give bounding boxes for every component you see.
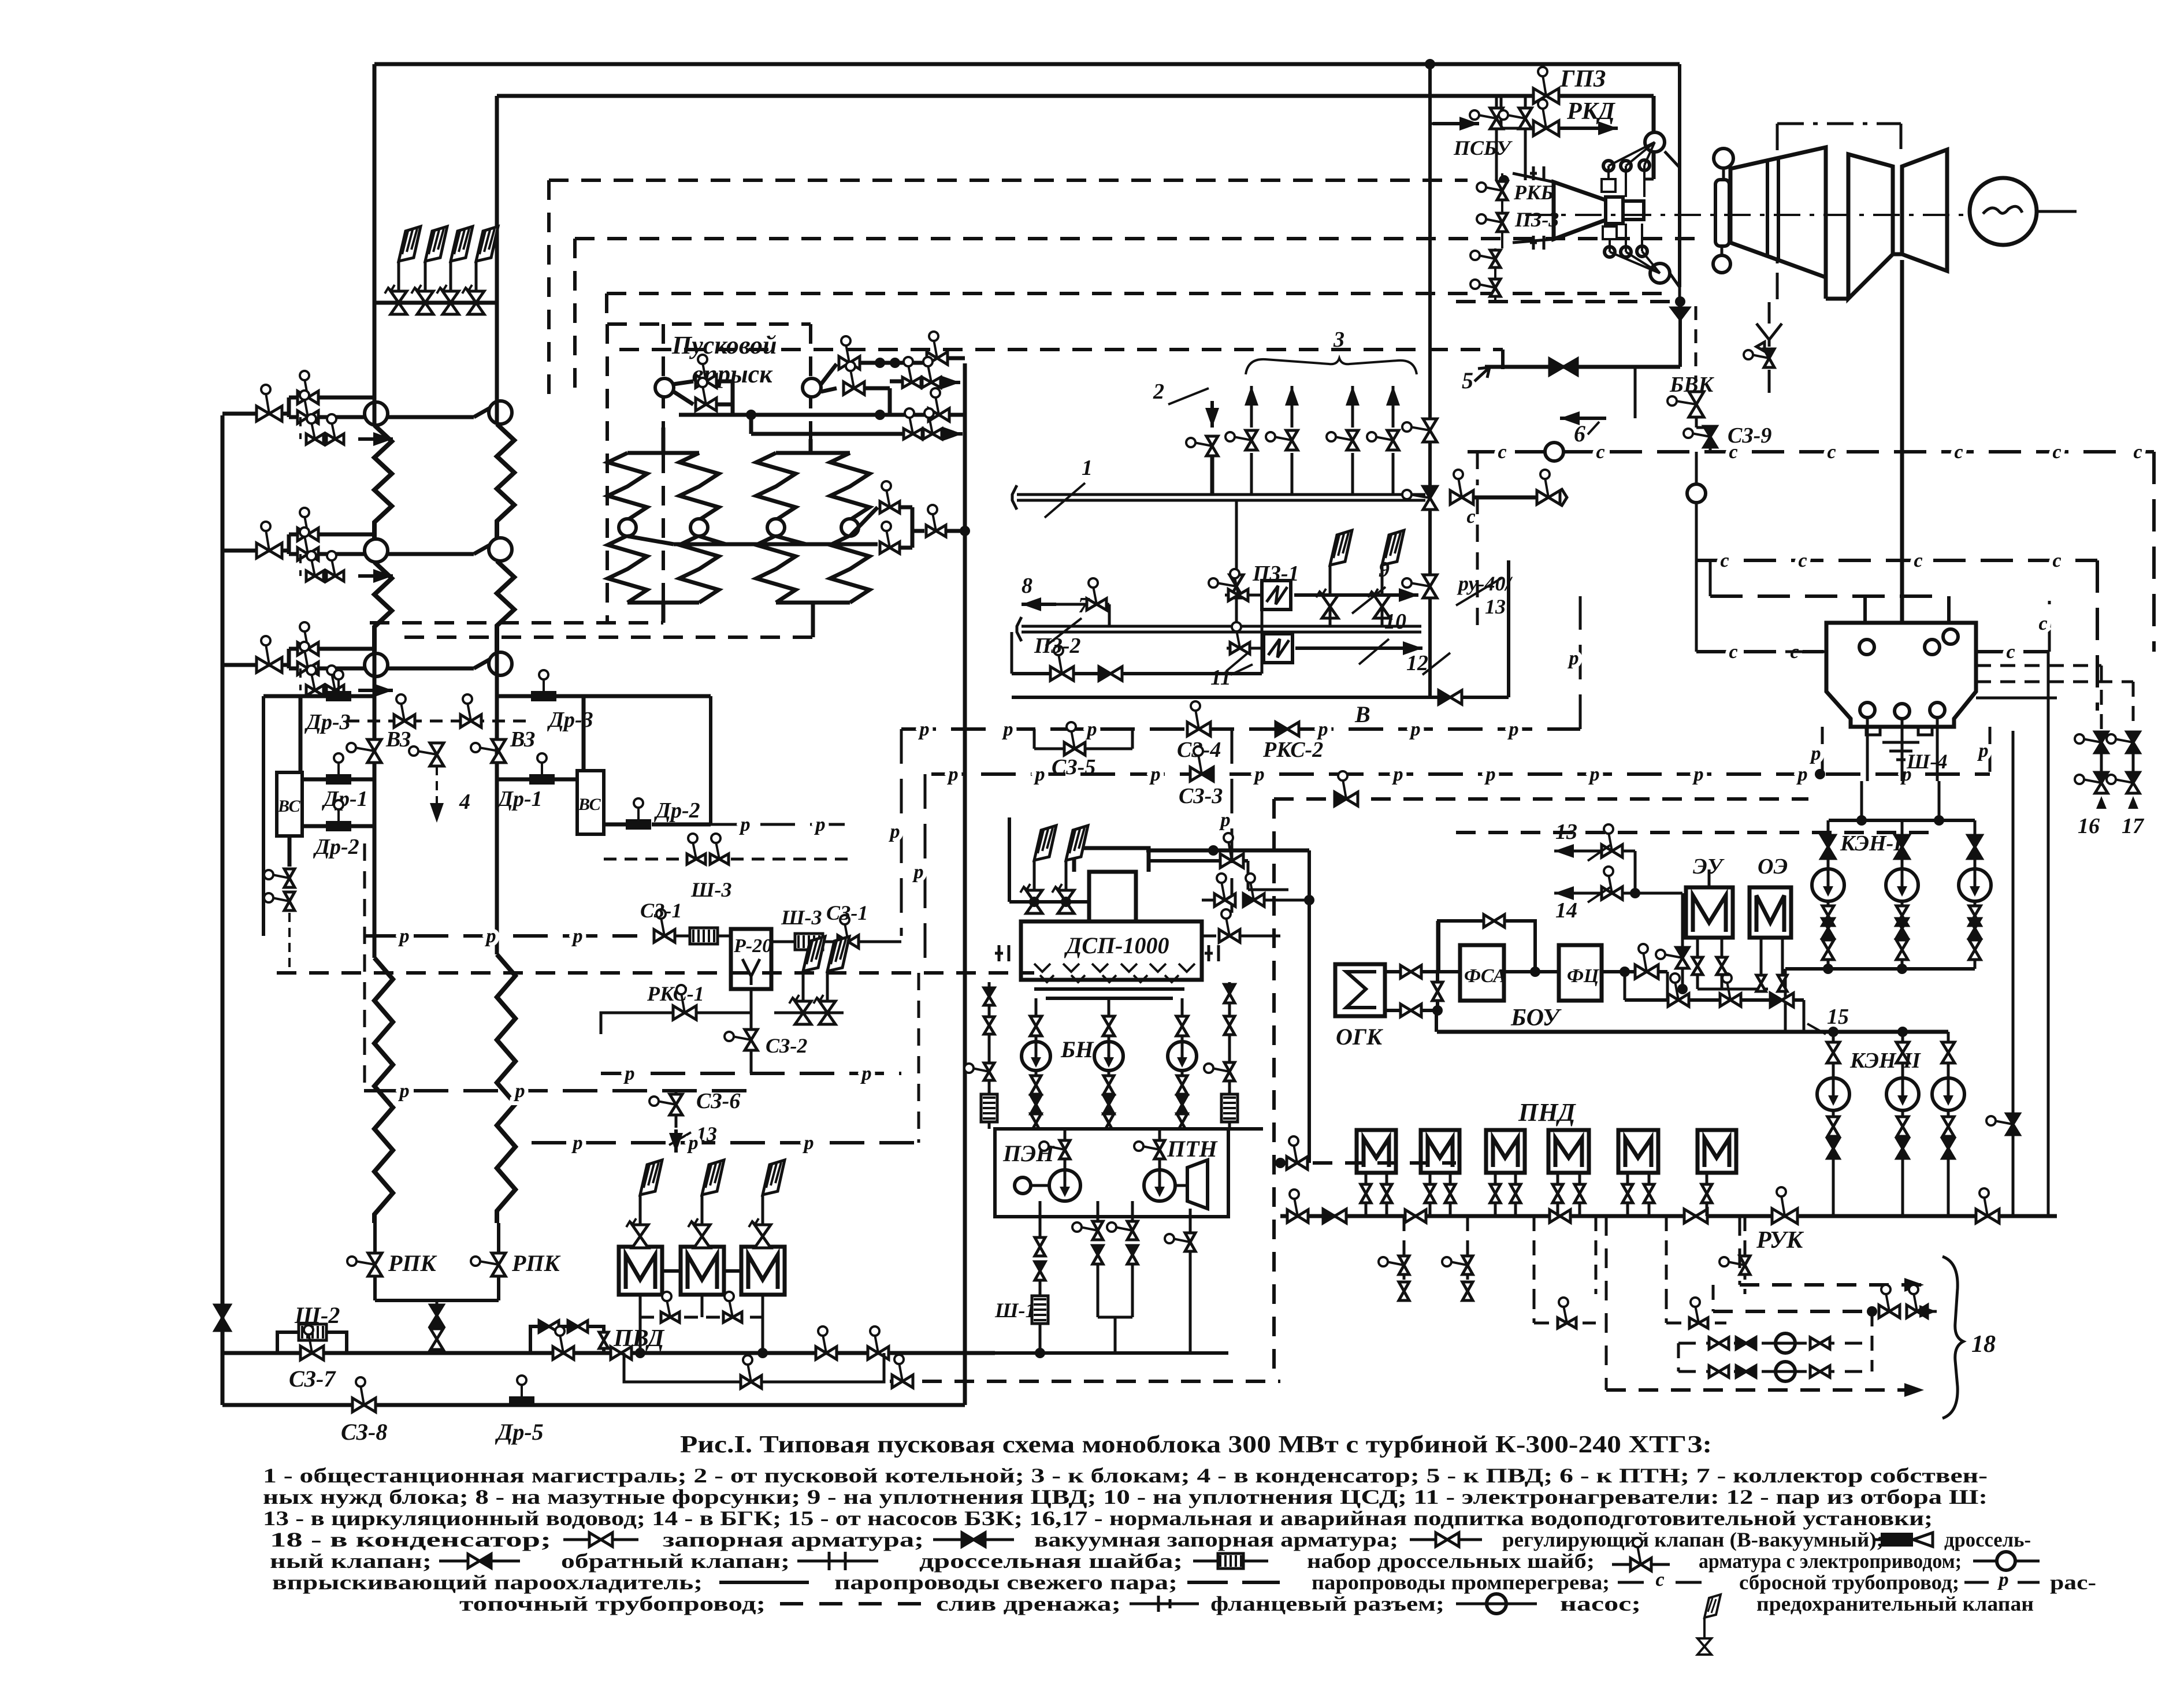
valve small bbox=[599, 1332, 608, 1340]
wire BN collector bbox=[1037, 1127, 1263, 1131]
check valve riser A bbox=[1994, 1121, 2013, 1124]
svg-text:c: c bbox=[1466, 506, 1475, 527]
wire bbox=[701, 1236, 703, 1247]
device PND5 bbox=[1618, 1130, 1658, 1173]
node spray row3 right bbox=[489, 652, 512, 675]
check valve RKS-2 bbox=[1276, 722, 1287, 736]
drain PND5 b bbox=[1648, 1173, 1651, 1184]
valve BN top 1793 bbox=[1030, 1016, 1042, 1026]
drain valves row1 bbox=[311, 422, 315, 439]
pump KEN-I 3164 bbox=[1812, 869, 1844, 901]
svg-text:дроссельная шайба;: дроссельная шайба; bbox=[919, 1549, 1183, 1573]
coil injection 1086 upper bbox=[608, 453, 647, 520]
wire bbox=[1210, 456, 1214, 495]
valve 2 bbox=[1194, 443, 1212, 446]
valve PEN out a bbox=[1035, 1237, 1045, 1247]
wire net p upper bbox=[901, 727, 1580, 731]
wire to heater 1 bbox=[1261, 595, 1264, 674]
wire 18 bottom bbox=[1606, 1388, 1924, 1392]
drain PND5 a bbox=[1626, 1173, 1629, 1184]
valve KEN-II top 3293 bbox=[1896, 1042, 1909, 1053]
generator symbol bbox=[1983, 206, 2022, 214]
wire bbox=[1827, 820, 1830, 835]
check valve net B bbox=[1439, 690, 1450, 704]
valve KEN-I out 3164 bbox=[1822, 940, 1834, 950]
leader 11 bbox=[1226, 653, 1248, 671]
valve PZ-3b bbox=[1479, 255, 1495, 259]
wire KEN-I collector bbox=[1785, 967, 1975, 971]
wire bbox=[1901, 1063, 1904, 1078]
wire bbox=[1602, 970, 1667, 973]
wire bbox=[1832, 1110, 1835, 1116]
svg-text:c: c bbox=[2006, 641, 2015, 663]
wire bbox=[953, 1352, 995, 1355]
wire bbox=[640, 1236, 641, 1247]
svg-text:p: p bbox=[485, 926, 496, 947]
svg-text:13 - в циркуляционный водовод;: 13 - в циркуляционный водовод; 14 - в БГ… bbox=[263, 1507, 1933, 1530]
wire casing dash-dot left bbox=[1776, 124, 1779, 302]
svg-text:ДСП-1000: ДСП-1000 bbox=[1064, 932, 1169, 958]
wire p lowest bbox=[532, 1141, 919, 1144]
wire bbox=[1784, 969, 1787, 1032]
arrow 2 in bbox=[1210, 401, 1214, 428]
valve BN check 2046 bbox=[1177, 1095, 1187, 1105]
wire bbox=[373, 653, 377, 958]
arrow 8 bbox=[1022, 603, 1056, 606]
valve RKS-1 bbox=[681, 993, 685, 1013]
wire drain bbox=[299, 668, 302, 690]
svg-text:фланцевый разъем;: фланцевый разъем; bbox=[1210, 1592, 1444, 1615]
wire bbox=[776, 536, 806, 544]
svg-text:ВС: ВС bbox=[578, 795, 601, 814]
wire waterwall left down bbox=[373, 1223, 377, 1300]
arrow out 3 x2166 bbox=[1250, 384, 1253, 388]
valves PTN recirculation bbox=[1115, 1227, 1132, 1231]
device PND2 bbox=[1421, 1130, 1459, 1173]
wire coil cross bbox=[627, 536, 674, 544]
wire bbox=[436, 1300, 439, 1305]
valve 3 x2411 bbox=[1375, 437, 1393, 440]
wire bbox=[1008, 817, 1011, 902]
svg-text:c: c bbox=[2052, 550, 2061, 571]
wire bbox=[1181, 1036, 1184, 1042]
wire bbox=[1250, 453, 1253, 495]
motor PEN bbox=[1015, 1177, 1031, 1194]
heater 11 b bbox=[1264, 634, 1292, 663]
wire left downcomer A bbox=[373, 64, 377, 303]
svg-text:18: 18 bbox=[1971, 1331, 1996, 1358]
wire drop link 2 bbox=[1665, 1294, 1668, 1323]
wire makeup vert 16 bbox=[2100, 666, 2103, 729]
port condenser 2 bbox=[1925, 640, 1940, 655]
wire bbox=[1863, 596, 1867, 623]
legend sym reheat line bbox=[1187, 1581, 1228, 1584]
svg-text:p: p bbox=[687, 1132, 699, 1154]
valve RKB bbox=[1485, 187, 1502, 191]
check RPK down bbox=[430, 1305, 443, 1315]
wire bbox=[716, 380, 733, 384]
wire bbox=[287, 397, 291, 417]
wire bbox=[474, 402, 500, 417]
wire left feed main bbox=[221, 415, 225, 1405]
wire drain bbox=[299, 417, 302, 439]
brace 18 bbox=[1942, 1257, 1963, 1418]
wire bbox=[1261, 648, 1264, 674]
valve aux b bbox=[984, 1017, 994, 1025]
safety valve PK-3 bbox=[443, 291, 459, 314]
legend sym check valve bbox=[439, 1560, 520, 1563]
svg-text:p: p bbox=[623, 1063, 635, 1084]
svg-text:ВЗ: ВЗ bbox=[385, 727, 411, 752]
valve BN top 1919 bbox=[1103, 1016, 1115, 1026]
wire FSA bypass bbox=[1439, 921, 1535, 972]
legend sym vacuum valve bbox=[933, 1538, 1014, 1541]
pump BN 1919 bbox=[1094, 1042, 1123, 1071]
valve RPK right bbox=[479, 1261, 499, 1265]
flange mark bottom bbox=[1530, 236, 1544, 250]
valve VZ left bbox=[355, 748, 374, 751]
wire PEN out bbox=[1039, 1201, 1042, 1236]
wire bbox=[900, 506, 912, 510]
coil waterwall left bbox=[374, 958, 393, 1223]
wire steam to own needs bbox=[1428, 64, 1432, 697]
wire waterwall right down bbox=[497, 1223, 500, 1300]
wire bbox=[1696, 975, 1699, 989]
arrow out 3 x2411 bbox=[1391, 384, 1395, 388]
wire dashed block right bbox=[1272, 799, 1276, 1381]
valve RKD bbox=[1543, 107, 1546, 128]
svg-text:c: c bbox=[2133, 441, 2142, 463]
valve SZ-3 bbox=[1198, 754, 1202, 774]
wire bbox=[1035, 998, 1038, 1016]
valve PVD outlet 2 bbox=[875, 1335, 878, 1353]
turbine HP rotor box 2 bbox=[1623, 201, 1644, 220]
wire SZ-5 loop bbox=[1034, 748, 1064, 750]
drain valves row2 bbox=[311, 559, 315, 576]
legend sym control valve bbox=[1410, 1538, 1482, 1541]
node servo top bbox=[1645, 132, 1665, 152]
svg-text:паропроводы свежего пара;: паропроводы свежего пара; bbox=[834, 1571, 1178, 1594]
node junction bbox=[1425, 59, 1435, 69]
wire bbox=[1056, 603, 1109, 606]
wire Dr-3 left bbox=[263, 694, 326, 698]
svg-text:ру-40/: ру-40/ bbox=[1457, 572, 1513, 595]
wire net c 3 bbox=[1696, 650, 1826, 653]
wire safety valve header bbox=[374, 301, 497, 305]
valve PTN out bbox=[1173, 1239, 1190, 1242]
wire bbox=[639, 1317, 642, 1353]
box feed pumps bbox=[995, 1129, 1228, 1217]
valve drain cross 2 bbox=[467, 703, 471, 721]
svg-text:рас-: рас- bbox=[2050, 1571, 2096, 1594]
wire PSBU b bbox=[1524, 96, 1527, 108]
svg-text:р: р bbox=[1997, 1569, 2009, 1590]
check KEN-II low 3173 bbox=[1828, 1139, 1839, 1149]
pump 18 2325 bbox=[1776, 1333, 1795, 1353]
valve collector 1 right bbox=[1458, 478, 1462, 497]
valve RU-40/13 bbox=[1410, 583, 1430, 586]
wire c link bbox=[1710, 594, 1937, 598]
wire bbox=[1947, 1110, 1950, 1116]
wire bbox=[1250, 386, 1253, 428]
wire bbox=[1678, 302, 1682, 367]
svg-text:с: с bbox=[1655, 1569, 1664, 1590]
valve SZ-1 left bbox=[661, 917, 664, 936]
svg-text:2: 2 bbox=[1153, 380, 1164, 404]
svg-text:дроссель-: дроссель- bbox=[1944, 1528, 2031, 1551]
svg-text:регулирующий клапан (В-вакуумн: регулирующий клапан (В-вакуумный); bbox=[1502, 1528, 1884, 1551]
svg-text:3: 3 bbox=[1333, 328, 1344, 352]
wire steam drop 2762 bbox=[1595, 1216, 1598, 1294]
svg-text:p: p bbox=[1796, 764, 1808, 785]
valve aux c bbox=[972, 1068, 989, 1072]
svg-text:ПТН: ПТН bbox=[1167, 1136, 1219, 1162]
coil injection 1210 lower bbox=[679, 536, 719, 603]
wire net c main bbox=[1468, 450, 2154, 454]
port condenser 6 bbox=[1930, 703, 1945, 718]
leader bbox=[1045, 483, 1085, 518]
node coil 1471 bbox=[841, 519, 859, 536]
wire bbox=[1901, 858, 1904, 869]
wire net c right vert bbox=[2152, 452, 2156, 652]
svg-text:Пусковой: Пусковой bbox=[671, 331, 777, 359]
wire coil top 1 bbox=[627, 451, 699, 455]
wire bbox=[749, 415, 753, 434]
drain PND3 a bbox=[1494, 1173, 1497, 1184]
drain PND3 b bbox=[1514, 1173, 1517, 1184]
wire vent bbox=[1202, 935, 1216, 938]
safety valve PK-2 bbox=[417, 291, 433, 314]
flange mark top bbox=[1530, 166, 1544, 180]
valve 18 row 2374 b bbox=[1736, 1366, 1746, 1377]
pump 18 2374 bbox=[1776, 1362, 1795, 1381]
wire bbox=[1202, 899, 1213, 902]
valve KEN-I out 3292 bbox=[1896, 940, 1908, 950]
pump BN 1793 bbox=[1022, 1042, 1050, 1071]
svg-text:ОГК: ОГК bbox=[1336, 1024, 1383, 1050]
svg-text:Ш-4: Ш-4 bbox=[1906, 750, 1948, 773]
valve BN low 1919 bbox=[1104, 1114, 1114, 1123]
throttle Dr-1 right bbox=[529, 774, 555, 785]
wire dashed makeup bbox=[1280, 1161, 1456, 1165]
valve vacuum line5 bbox=[1550, 359, 1563, 375]
safety valve R20 b bbox=[819, 1001, 835, 1024]
wire bbox=[1893, 252, 1902, 257]
wire branch 6 bbox=[1634, 367, 1637, 418]
valve vprysk 1a bbox=[703, 363, 706, 381]
wire bbox=[946, 529, 965, 533]
wire linkage top bbox=[1609, 142, 1655, 166]
valve row1-3 bbox=[304, 399, 308, 417]
arrow out 3 x2236 bbox=[1290, 384, 1294, 388]
device PVD1 bbox=[619, 1247, 662, 1295]
wire dashed cold reheat 2 bbox=[619, 348, 1503, 351]
wire bbox=[864, 386, 890, 391]
wire coil bottom 2 bbox=[776, 601, 850, 605]
wire net c vert2 bbox=[2096, 560, 2099, 711]
wires ports down bbox=[1866, 718, 1869, 781]
valve drop 1b bbox=[1399, 1282, 1409, 1291]
cam box bottom bbox=[1603, 226, 1617, 239]
valve SZ-8 bbox=[361, 1385, 364, 1405]
valve KEN-I mid 3164 bbox=[1822, 906, 1834, 916]
valve KEN-I mid 3292 bbox=[1896, 906, 1908, 916]
wire steam drop 2540 bbox=[1466, 1216, 1469, 1294]
wire p to R20 bbox=[364, 934, 637, 938]
valve drop link bbox=[1563, 1306, 1567, 1323]
check condensate bbox=[1323, 1209, 1335, 1223]
valves PEN recirculation bbox=[1080, 1227, 1098, 1231]
wire PVD drain header bbox=[640, 1316, 763, 1319]
wire steam drop 3020 bbox=[1744, 1216, 1747, 1294]
wire p vert 2 bbox=[924, 774, 927, 973]
wire dashed drains long bbox=[1456, 831, 1930, 834]
legend sym stop valve bbox=[563, 1538, 638, 1541]
valve PND 3-4 bbox=[1550, 1210, 1560, 1222]
leader bbox=[1168, 388, 1209, 404]
check KEN-I low 3292 bbox=[1896, 919, 1908, 928]
leader bbox=[669, 1132, 691, 1145]
valve row3-1 bbox=[266, 644, 269, 665]
valve coil out b bbox=[886, 530, 890, 548]
flange right bbox=[1205, 945, 1219, 961]
device PND3 bbox=[1486, 1130, 1525, 1173]
wire bbox=[1494, 248, 1496, 250]
leader bbox=[1359, 639, 1389, 664]
cam box top bbox=[1602, 179, 1615, 192]
wire bbox=[1901, 1032, 1904, 1042]
wire bbox=[1947, 1158, 1950, 1216]
arrow 9 bbox=[1294, 593, 1418, 597]
wire bbox=[1681, 968, 1684, 989]
drain PND2 b bbox=[1449, 1173, 1452, 1184]
symbol Sh-4 shim stack bbox=[1882, 742, 1919, 760]
wire PVD bypass loop bbox=[530, 1326, 604, 1353]
wire p up corner bbox=[1579, 596, 1582, 729]
turbine LP left flow bbox=[1848, 154, 1893, 299]
coil waterwall right bbox=[497, 954, 515, 1223]
node coil 1210 bbox=[690, 519, 708, 536]
valve vprysk header right bbox=[935, 396, 939, 415]
valve deaerator right top bbox=[1228, 841, 1232, 861]
svg-text:СЗ-6: СЗ-6 bbox=[696, 1089, 740, 1113]
svg-text:p: p bbox=[1507, 719, 1519, 740]
valve KEN-II top 3372 bbox=[1942, 1042, 1955, 1053]
wire bbox=[1392, 386, 1395, 428]
svg-text:10: 10 bbox=[1384, 609, 1406, 634]
turbine IP cylinder bbox=[1730, 147, 1826, 277]
svg-text:c: c bbox=[1498, 441, 1506, 463]
cap bbox=[1017, 617, 1022, 641]
wire bbox=[1974, 901, 1977, 905]
wire left frame drop bbox=[262, 696, 265, 936]
wire bbox=[890, 380, 902, 384]
svg-text:p: p bbox=[1977, 740, 1989, 761]
svg-text:c: c bbox=[1798, 550, 1807, 571]
node c 1 bbox=[1545, 443, 1563, 461]
svg-text:18 - в конденсатор;: 18 - в конденсатор; bbox=[270, 1528, 551, 1551]
coil superheater R1 bbox=[497, 424, 514, 539]
wire bbox=[1901, 901, 1904, 905]
wire bbox=[1947, 596, 1951, 623]
svg-text:c: c bbox=[2038, 613, 2047, 634]
svg-text:p: p bbox=[1086, 719, 1097, 740]
device VS left bbox=[277, 772, 302, 836]
wire bbox=[811, 603, 815, 637]
wire right frame drop bbox=[709, 696, 712, 824]
svg-text:16: 16 bbox=[2078, 814, 2100, 838]
valve drain bbox=[899, 1363, 902, 1381]
wire bbox=[1902, 150, 1947, 166]
wire bbox=[662, 439, 666, 453]
valve PSBU a bbox=[1478, 115, 1496, 118]
wire EU out bbox=[1696, 938, 1699, 958]
arrow out 2 bbox=[943, 432, 963, 436]
svg-text:Др-2: Др-2 bbox=[313, 835, 359, 859]
svg-text:p: p bbox=[514, 1080, 525, 1102]
wire bbox=[1430, 122, 1433, 125]
valve vprysk top right bbox=[934, 340, 937, 358]
valve heater 1 bbox=[1235, 577, 1238, 595]
wire casing dash-dot right bbox=[1900, 124, 1903, 149]
svg-text:p: p bbox=[1317, 719, 1328, 740]
svg-text:Р-20: Р-20 bbox=[733, 935, 772, 957]
svg-text:15: 15 bbox=[1827, 1005, 1849, 1029]
svg-text:ПНД: ПНД bbox=[1518, 1098, 1576, 1127]
wire bbox=[1181, 998, 1184, 1016]
legend sym motor valve bbox=[1612, 1563, 1670, 1566]
valve collector 1 end bbox=[1545, 478, 1548, 497]
svg-text:насос;: насос; bbox=[1560, 1592, 1641, 1615]
wire bbox=[1827, 901, 1830, 905]
svg-text:p: p bbox=[398, 926, 410, 947]
leader bbox=[1588, 887, 1611, 902]
wire bbox=[1557, 94, 1654, 98]
safety valve PVD3 bbox=[755, 1225, 771, 1248]
wire bbox=[1644, 178, 1654, 181]
valve FSA bypass bbox=[1484, 915, 1494, 927]
device PVD3 bbox=[741, 1247, 785, 1295]
cap bbox=[1012, 485, 1017, 510]
check valves PVD bypass bbox=[539, 1321, 549, 1332]
throttle Dr-2 right bbox=[626, 819, 651, 830]
svg-text:Др-5: Др-5 bbox=[495, 1419, 544, 1445]
svg-text:ФЦ: ФЦ bbox=[1567, 965, 1600, 987]
svg-text:p: p bbox=[1484, 764, 1496, 785]
legend sym flange joint bbox=[1130, 1603, 1199, 1605]
wire Sh-2 loop bbox=[277, 1332, 347, 1353]
wire bbox=[1108, 1114, 1110, 1115]
wire bbox=[299, 696, 303, 772]
wire bbox=[373, 303, 377, 425]
valve 18 row 2374 c bbox=[1810, 1366, 1820, 1377]
device deaerator head bbox=[1074, 848, 1149, 872]
valve auxR c bbox=[1212, 1068, 1230, 1072]
shim Sh-2 bbox=[299, 1324, 326, 1340]
wire makeup vert 17 bbox=[2132, 682, 2135, 729]
valve PVD inlet 2 bbox=[611, 1347, 621, 1359]
symbol sigma bbox=[1346, 972, 1376, 1008]
svg-text:СЗ-1: СЗ-1 bbox=[640, 899, 682, 922]
throttle Dr-3 right bbox=[531, 691, 556, 701]
arrow out 1 bbox=[941, 381, 960, 384]
valve SZ-1 right bbox=[845, 923, 848, 942]
valve auxR a bbox=[1224, 984, 1235, 994]
node IP valve top bbox=[1714, 148, 1733, 168]
valve 18 row 2325 b bbox=[1736, 1337, 1746, 1349]
wire bbox=[474, 539, 500, 554]
wire bbox=[324, 533, 374, 537]
